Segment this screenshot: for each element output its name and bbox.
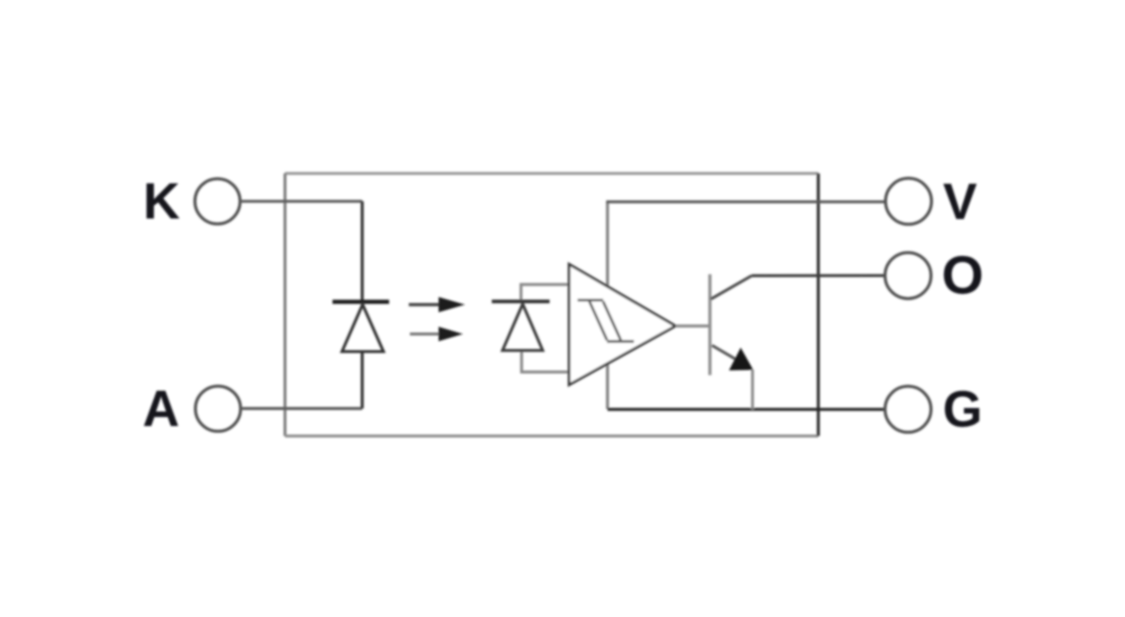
svg-text:G: G [943,380,983,437]
terminal A [195,386,240,431]
LED D1 cathode bar [333,300,390,304]
photodiode D2 cathode bar [492,300,550,304]
wire collector to O [752,274,886,277]
Vcc rail wire to V [606,202,886,409]
wire A to LED anode [240,351,362,409]
photodiode D2 cathode bracket wire [521,285,569,302]
light arrow 1 [409,297,465,312]
wire K to LED cathode [240,201,362,300]
photodiode D2 anode bracket wire [522,350,569,372]
label K [143,173,180,230]
label A [143,380,180,437]
svg-text:V: V [943,173,977,230]
LED D1 triangle [342,305,384,352]
photodiode D2 triangle [503,304,543,350]
terminal V [886,178,932,224]
wire amplifier output to base [676,325,709,328]
amplifier U1 triangle [569,264,675,385]
package outline box [285,173,818,436]
hysteresis symbol [578,300,634,341]
transistor Q1 emitter [712,345,737,360]
transistor Q1 collector [711,276,752,299]
transistor Q1 emitter arrowhead [729,348,753,371]
transistor Q1 base bar [708,274,711,375]
label O [942,246,984,306]
svg-text:O: O [942,246,984,306]
label V [943,173,977,230]
svg-text:K: K [143,173,180,230]
terminal K [195,179,240,224]
label G [943,380,983,437]
terminal G [885,386,931,432]
terminal O [885,253,931,299]
wire emitter to ground rail [751,370,754,410]
svg-text:A: A [143,380,180,437]
ground rail wire to G [608,408,886,411]
light arrow 2 [410,327,463,341]
